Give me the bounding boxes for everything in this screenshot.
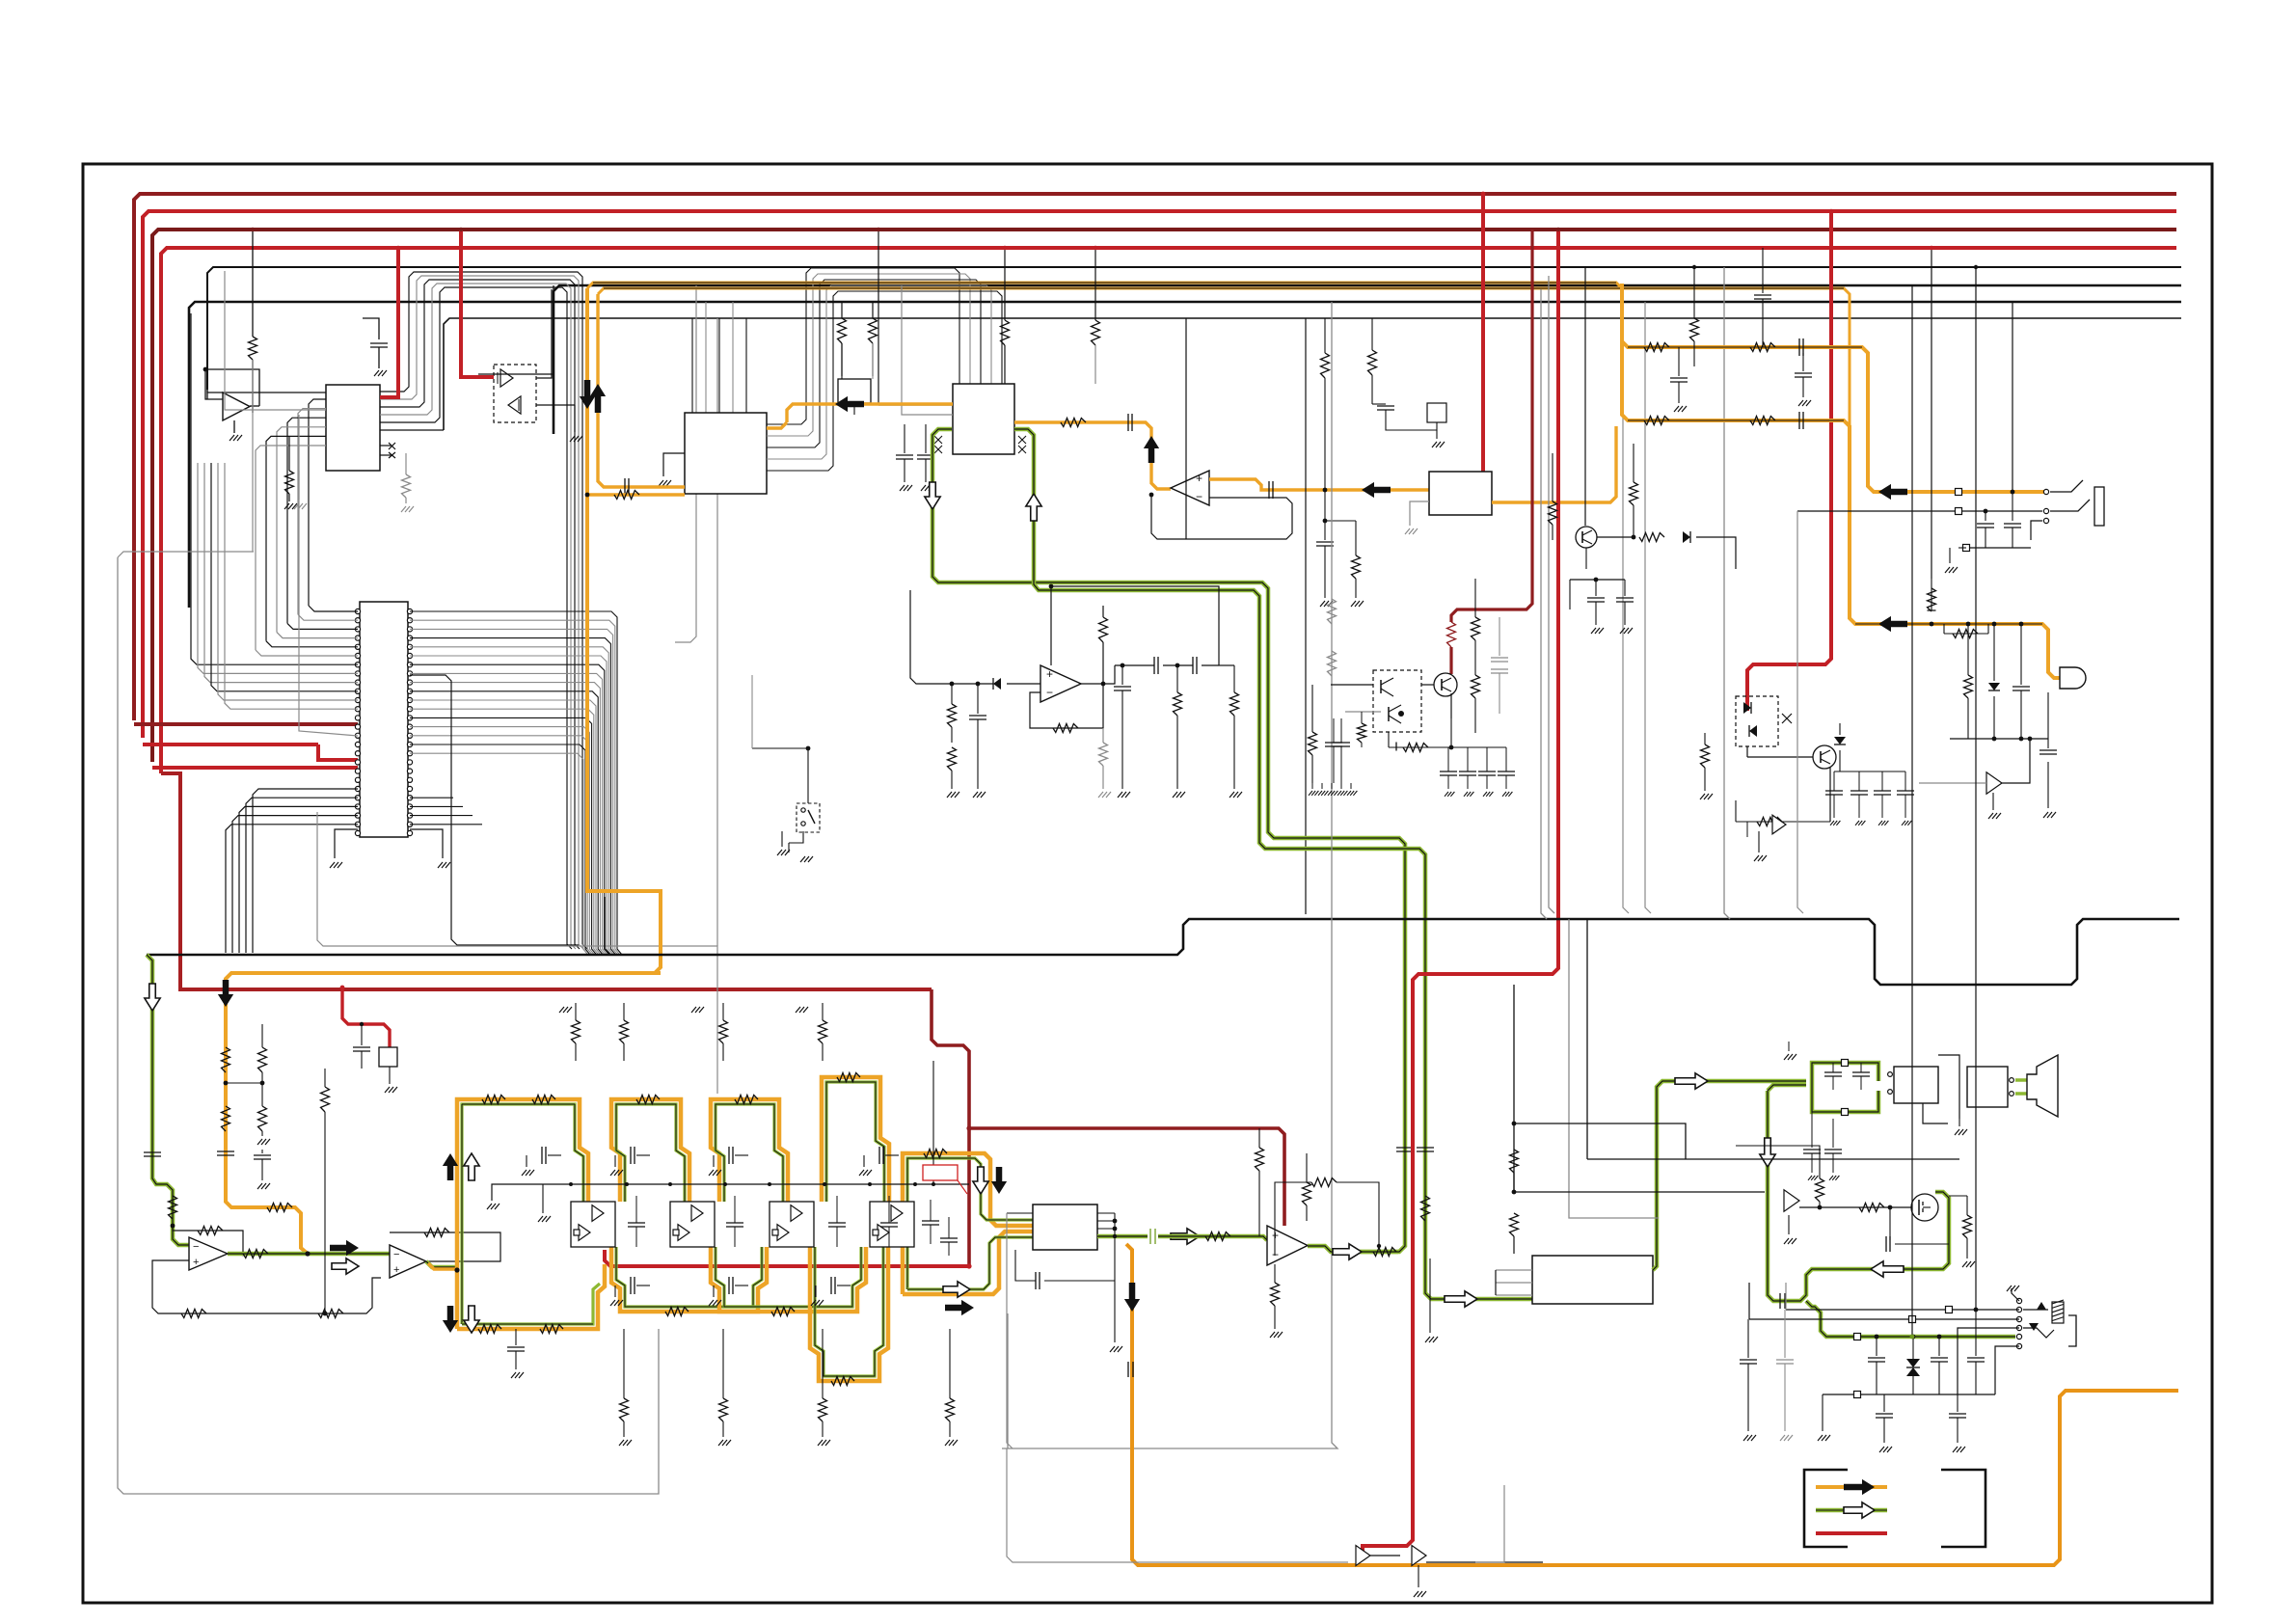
- caps row right of Q3: [1440, 771, 1457, 772]
- grounds mid cluster: [1746, 822, 1748, 837]
- resistor green: [1205, 1232, 1230, 1241]
- filter caps row upper: [526, 1155, 527, 1167]
- wire second bus: [605, 897, 610, 955]
- diode D2: [993, 678, 1001, 690]
- resistor R7 on orange: [222, 1047, 230, 1072]
- wire dashed box right: [536, 289, 552, 378]
- wire from rail to x1757: [1692, 265, 1696, 269]
- feedback U8: [390, 1232, 500, 1261]
- ground under U2: [233, 420, 235, 433]
- wire codec top pins: [878, 230, 879, 405]
- transistor Q4a: [1380, 680, 1382, 693]
- resistor on riser x1381a: [1328, 599, 1337, 624]
- transistor Q5: [1813, 745, 1836, 769]
- red vertical to filter: [932, 989, 969, 1266]
- IC U15 mux: [1033, 1204, 1097, 1250]
- capacitor near box: [361, 1024, 363, 1045]
- IC U11: [1532, 1256, 1653, 1304]
- feedback network opamps: [152, 1260, 381, 1313]
- resistor on riser x1381b: [1328, 651, 1337, 676]
- IC U4 codec: [953, 384, 1014, 454]
- wire U15 left top: [1007, 1212, 1033, 1214]
- wire CN1 right pin 20: [410, 675, 579, 945]
- wire bus drop x1230: [1185, 318, 1187, 539]
- resistor R36 h: [1944, 633, 1988, 635]
- wire +B rail 1 (dark red): [134, 194, 2176, 720]
- wire U15 right riser: [1114, 1213, 1116, 1342]
- res x1757 from B1: [1693, 267, 1695, 318]
- svg-text:+: +: [1046, 667, 1053, 681]
- wire top cluster: [1570, 579, 1625, 581]
- wire jack ring: [1797, 510, 2042, 512]
- dashed box Q4 pair: [1373, 670, 1421, 732]
- wires U1 left pins bundle: [309, 399, 326, 606]
- cluster col x272 lower: [261, 1150, 263, 1153]
- wire orange trunk A vertical: [226, 288, 661, 1254]
- legend orange line: [1816, 1485, 1887, 1489]
- red drop to U1 pin: [380, 248, 398, 397]
- wire to ground right of box: [574, 405, 576, 432]
- speaker filter loop: [1812, 1063, 1878, 1081]
- white arrow right out: [943, 1282, 970, 1297]
- wire long gray x1381: [1002, 302, 1337, 1448]
- arrows stage1: [443, 1153, 458, 1180]
- wire from bus to U2: [206, 390, 208, 399]
- wire +B rail 4 (red): [161, 248, 2176, 773]
- cluster grounds above filter: [559, 1007, 564, 1013]
- cap under U15: [1015, 1250, 1036, 1281]
- feedback U9: [1030, 684, 1103, 728]
- black arrow down orange trunk: [1124, 1283, 1140, 1312]
- grounds under switch: [781, 831, 783, 847]
- caps under jack: [1985, 511, 1986, 521]
- filter bias left end: [492, 1184, 543, 1201]
- buffer U10: [1772, 815, 1786, 834]
- transistor Q4b: [1388, 707, 1390, 721]
- inverter A: [500, 369, 513, 387]
- signal arrow down: [580, 380, 595, 409]
- wire Q5 connections: [1746, 746, 1748, 757]
- ground line under jack: [1966, 547, 2031, 549]
- filter stage1 top resistors: [482, 1096, 505, 1104]
- caps under U13: [1274, 1264, 1276, 1283]
- diode D4: [1839, 723, 1841, 735]
- wire cap row top: [1451, 746, 1506, 748]
- resistor R24 right of U9: [1102, 606, 1104, 617]
- filter stage 4 bottom loop low: [810, 1247, 888, 1381]
- dashed box dual inverter Q1: [494, 365, 536, 422]
- filter vertical resistors below: [623, 1329, 625, 1398]
- ground CN1 left: [335, 829, 358, 858]
- op-amp U7: [189, 1237, 228, 1270]
- wire orange mid horizontal: [655, 971, 661, 975]
- resistor R30 under: [1233, 665, 1235, 692]
- inverter B: [508, 396, 521, 414]
- cap gate: [1889, 1207, 1891, 1240]
- white arrow down stage5: [973, 1167, 988, 1194]
- wire red rail to CN pin 18: [152, 766, 358, 770]
- MOSFET Q7: [1911, 1194, 1938, 1221]
- wire into dashed box: [461, 230, 494, 377]
- green amp loop top link: [1768, 1085, 1806, 1091]
- capacitor on green input: [144, 1151, 161, 1153]
- wire Q3 base link: [1421, 684, 1434, 686]
- op-amp U5: [1171, 471, 1209, 505]
- white arrow right green: [1445, 1291, 1477, 1307]
- resistor R35 h: [1736, 821, 1813, 823]
- filter stage 3 loop: [711, 1099, 788, 1202]
- buffer pair bottom: [1356, 1546, 1370, 1566]
- caps on green pair: [1396, 1147, 1414, 1149]
- resistor R32 feedback: [1389, 746, 1451, 748]
- headphone jack J2: [2016, 1298, 2021, 1303]
- svg-text:+: +: [1196, 472, 1202, 485]
- resistor R2: [288, 436, 290, 471]
- resistors caps loop2: [1644, 417, 1669, 425]
- capacitor C1: [363, 318, 379, 339]
- gate network: [1840, 1206, 1911, 1208]
- series cap green: [1779, 1293, 1781, 1309]
- wire red jog to CN pin 17: [318, 744, 358, 760]
- white arrow right speaker: [1675, 1073, 1708, 1089]
- resistor left of box: [1361, 712, 1363, 723]
- resistor R5: [838, 318, 847, 343]
- filter stage 2 bottom loop: [611, 1247, 767, 1312]
- wire caps to U9 out: [1103, 665, 1115, 684]
- ground pair: [298, 471, 300, 500]
- speaker block: [1967, 1067, 2008, 1107]
- red horizontal mid: [969, 1128, 1284, 1226]
- no connect mark: [1782, 714, 1792, 723]
- speaker connector CN2: [1888, 1072, 1893, 1077]
- orange joins at junction: [305, 1251, 310, 1256]
- wire Q3 emitter: [1450, 693, 1452, 718]
- filter caps bottom stage1: [515, 1329, 517, 1345]
- wire riser x1646: [1586, 919, 1588, 1159]
- green amp loop: [1768, 1091, 1949, 1301]
- wire jack sleeve down: [2031, 521, 2042, 540]
- capacitor C12: [977, 684, 979, 714]
- orange loop1 top: [1621, 288, 1623, 353]
- resistor on green input: [169, 1196, 177, 1219]
- resistor after U13: [1373, 1248, 1396, 1257]
- wire CN1 gray pin link: [299, 415, 358, 736]
- orange codec exit: [767, 422, 787, 428]
- cap right mic: [2047, 692, 2049, 739]
- black core orange A: [593, 282, 1616, 284]
- connector CN1 left pins: [355, 609, 360, 613]
- caps in speaker loop: [1824, 1071, 1842, 1073]
- gray outline lower: [317, 812, 717, 1094]
- jack J1 line-in: [2043, 489, 2048, 494]
- cluster col x272: [261, 1024, 263, 1047]
- white arrow out U13: [1333, 1244, 1362, 1259]
- ground U3 left: [663, 453, 685, 476]
- resistor R26 left: [951, 684, 953, 704]
- orange bottom trunk: [1126, 1244, 2178, 1565]
- resistors caps loop1 top: [1644, 343, 1669, 352]
- caps under codec left: [904, 424, 905, 453]
- wire r30 link: [1219, 664, 1234, 666]
- wire into Q4 box: [1331, 684, 1373, 686]
- filter stage5 top resistor: [924, 1150, 947, 1158]
- orange cross links: [226, 1082, 262, 1084]
- resistor R15 below: [1325, 520, 1356, 522]
- J2 body: [2068, 1315, 2076, 1346]
- buffer grounds: [1418, 1565, 1419, 1587]
- ground buffer U16: [1992, 793, 1994, 810]
- wire red rail to CN pin 14: [134, 722, 358, 726]
- green out U11: [1653, 1081, 1806, 1270]
- resistor R8 on orange: [222, 1106, 230, 1131]
- wire U9 top loop: [1051, 586, 1219, 658]
- orange codec to opamp: [787, 404, 953, 422]
- arrow black right: [330, 1240, 359, 1256]
- caps below rail: [1883, 1394, 1885, 1412]
- resistor R10: [1004, 248, 1006, 320]
- connector CN1 body: [360, 602, 408, 837]
- grounds row Q3: [1311, 783, 1313, 789]
- white arrow mid: [332, 1259, 359, 1274]
- ground top speaker: [1788, 1042, 1790, 1051]
- op-amp U8: [390, 1245, 426, 1278]
- IC U1: [326, 385, 380, 471]
- square on jack line: [1956, 489, 1962, 496]
- resistor ladder x1530: [1474, 579, 1476, 617]
- resistor R25 below out: [1102, 728, 1104, 743]
- filter stage 1 orange loop: [457, 1099, 588, 1329]
- svg-text:−: −: [1196, 490, 1202, 503]
- resistor R20: [243, 1250, 268, 1259]
- J2 frame hatch: [2052, 1302, 2064, 1323]
- ground under C1: [374, 370, 379, 376]
- op-amp U13: [1267, 1226, 1308, 1265]
- wire codec top pin2: [902, 285, 953, 415]
- white arrow down amp: [1760, 1138, 1775, 1167]
- svg-text:−: −: [1046, 686, 1053, 699]
- J2 ground stub: [2012, 1288, 2019, 1301]
- feedback opamp U5: [1151, 495, 1292, 539]
- U11 left pin wires: [1496, 1269, 1532, 1271]
- wire orange trunk B: [598, 288, 1850, 426]
- cluster above filter: [575, 1003, 577, 1020]
- resistor R34: [1704, 733, 1706, 744]
- output U9 wire: [1081, 683, 1103, 685]
- buffer ground: [1788, 1215, 1790, 1234]
- wire staircase H1236: [1514, 1191, 1765, 1193]
- wires CN1 left fan from top: [309, 606, 358, 611]
- arrow left mic line: [1878, 616, 1907, 632]
- black arrow down stage5: [991, 1167, 1007, 1194]
- dashed diode box D3: [1736, 696, 1778, 746]
- ground CN1 right: [410, 829, 443, 858]
- svg-text:−: −: [393, 1249, 399, 1260]
- red artery from rail3: [1363, 230, 1558, 1555]
- riser x1644: [1584, 267, 1586, 526]
- resistor R29 under: [1176, 665, 1178, 692]
- riser x2003: [1931, 248, 1932, 579]
- wire +B rail 3 (maroon): [152, 230, 2176, 762]
- op-amp U2 buffer: [223, 392, 250, 420]
- caps row x1900: [1825, 790, 1843, 792]
- mic capsule: [2060, 667, 2086, 689]
- wire +B rail 2 (red): [143, 211, 2176, 738]
- resistor above gate: [1819, 1157, 1821, 1178]
- orange loop1 branchtop: [1622, 341, 2046, 492]
- wire gray H572: [118, 552, 254, 557]
- arrow left on jack line: [1878, 484, 1907, 500]
- wire R1 tail down: [252, 360, 254, 552]
- white arrow down green input: [145, 984, 160, 1011]
- transistor Q3: [1434, 673, 1457, 696]
- components under mic line: [1967, 624, 1969, 675]
- resistor R11: [1094, 248, 1096, 320]
- wires U15 right pins: [1097, 1212, 1115, 1214]
- wire from switch up: [807, 748, 809, 803]
- filter stage1 bottom resistors: [478, 1325, 501, 1334]
- no-connect pins U1: [380, 445, 392, 447]
- filter opamp boxes: [571, 1202, 615, 1247]
- wires U3 right pins: [767, 268, 959, 424]
- tall caps left: [1747, 1319, 1749, 1358]
- white arrow up green: [1026, 494, 1041, 521]
- caps zener under J2: [1876, 1337, 1877, 1356]
- wires U1 right pins fan to bus and down: [380, 272, 587, 949]
- resistor R3: [405, 453, 407, 474]
- red drop to U6: [1481, 194, 1485, 472]
- resistor left of q8: [1552, 453, 1553, 501]
- green to opamp U13: [1158, 1236, 1267, 1240]
- caps right of U9: [1103, 664, 1138, 666]
- filter ground mid: [542, 1184, 544, 1213]
- wire staircase H1202: [1587, 1158, 1959, 1160]
- black core mic line: [1855, 623, 2042, 625]
- wire U1 pin to B4: [380, 429, 444, 431]
- green+orange to filter: [426, 1261, 457, 1267]
- wire red rail down-left branch: [161, 773, 932, 989]
- riser x1983: [1911, 285, 1913, 1337]
- legend green line: [1816, 1508, 1887, 1513]
- wire main bus AGND: [147, 919, 2179, 985]
- wire bus B3: [189, 302, 2181, 608]
- wire gray riser x1683: [1623, 318, 1629, 913]
- white arrow left amp: [1871, 1261, 1904, 1277]
- resistor R27 left low: [948, 747, 957, 771]
- caps pair mid: [1325, 742, 1342, 744]
- resistors above q8: [1633, 444, 1634, 482]
- filter input junction: [454, 1267, 459, 1272]
- green opamp1 to opamp2: [228, 1252, 390, 1257]
- capacitor C7 on orange: [1268, 481, 1270, 499]
- resistor R16 from B4: [1324, 318, 1326, 353]
- arrow left on orange: [835, 396, 864, 412]
- green cap link: [1149, 1229, 1151, 1244]
- riser x1864: [1797, 511, 1803, 913]
- svg-text:−: −: [193, 1241, 199, 1253]
- wire riser x1627: [1569, 919, 1659, 1218]
- crystal X1: [838, 379, 871, 403]
- wire resistor top: [1736, 1146, 1820, 1157]
- resistor fb U13: [1275, 1182, 1311, 1256]
- filter caps inner: [628, 1222, 645, 1224]
- U13 support resistors: [1258, 1128, 1260, 1148]
- signal arrow up: [590, 384, 606, 413]
- wire U6 down: [1410, 501, 1429, 526]
- J2 bottom rail: [1823, 1394, 1995, 1395]
- red branch to box: [342, 988, 390, 1047]
- wire gray left L: [118, 557, 659, 1494]
- green wire right channel: [1014, 429, 1532, 1299]
- transistor Q8: [1576, 527, 1597, 548]
- IC U6 line amp: [1429, 472, 1492, 515]
- filter stage5 bottom pair: [903, 1232, 1033, 1294]
- op-amp U9: [1040, 665, 1081, 702]
- legend red line: [1816, 1531, 1887, 1535]
- mic bias resistor: [1930, 622, 1934, 627]
- black core loop lines: [1628, 346, 1862, 348]
- capacitor C9 and trim: [1371, 318, 1373, 350]
- green to headphone: [1806, 1301, 2015, 1337]
- wire gray column x1354: [1305, 318, 1307, 914]
- wire gray riser right: [1724, 267, 1730, 919]
- wire orange trunk A: [587, 283, 1622, 347]
- wire staircase H1165: [1514, 1123, 1686, 1159]
- filter output stage5 loop: [903, 1153, 1033, 1294]
- resistor R31: [1311, 685, 1313, 732]
- legend box: [1804, 1470, 1848, 1547]
- ground R2: [284, 503, 289, 509]
- capacitor C8 below: [1324, 490, 1326, 540]
- white arrow down green: [925, 482, 940, 509]
- green caps under speaker loop: [1811, 1112, 1813, 1119]
- resistor R1: [252, 230, 254, 337]
- bracket CN2: [1923, 1103, 1948, 1123]
- bottom long black wire: [1007, 1448, 1348, 1562]
- white arrow green U15: [1171, 1229, 1200, 1244]
- resistor on green right: [1421, 1196, 1430, 1221]
- J2 wires left: [1786, 1309, 2019, 1311]
- bottom rail right: [1475, 1485, 1504, 1562]
- red artery rail2 branch: [1747, 211, 1831, 711]
- arrow up on orange: [1144, 436, 1159, 463]
- feedback U7: [173, 1226, 243, 1254]
- codec no-connect marks: [934, 436, 942, 444]
- caps inside stage5: [922, 1220, 939, 1222]
- green out U13: [1308, 1246, 1398, 1252]
- wire buffer out: [2002, 739, 2030, 783]
- wire gray riser x1706: [1645, 302, 1651, 913]
- wire riser x1570: [1513, 985, 1515, 1192]
- riser x2087: [2012, 302, 2013, 492]
- capacitor C6 on orange: [1127, 414, 1129, 431]
- cap C13 under: [1121, 665, 1123, 685]
- cap x1870 under loop: [1802, 353, 1804, 371]
- svg-text:+: +: [193, 1257, 199, 1268]
- riser x2049: [1975, 267, 1977, 1310]
- green input vertical: [147, 955, 189, 1245]
- black arrow on orange descent: [218, 980, 233, 1007]
- gray riser x722: [675, 285, 696, 642]
- resistor R12 on orange: [1061, 419, 1086, 427]
- mic gnd line: [1950, 738, 2048, 740]
- red filter feedback line: [605, 1250, 969, 1266]
- wires CN1 right fan to bus: [410, 611, 622, 955]
- res x1828: [1762, 248, 1764, 293]
- filter stage1 bottom: [457, 1264, 605, 1329]
- wire into diode D2: [910, 590, 993, 684]
- wire bias riser: [932, 1061, 934, 1184]
- filter stage 4 loop tall: [822, 1077, 889, 1202]
